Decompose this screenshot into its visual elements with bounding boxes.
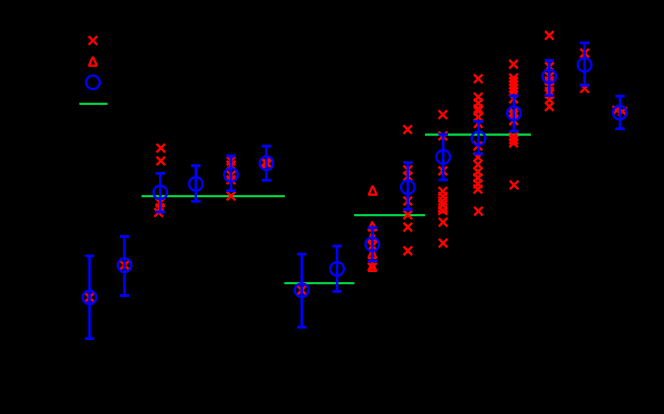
group mean line G1 <box>142 195 285 197</box>
cluster 13: blue mean circle <box>507 106 521 120</box>
cluster 3: blue error bar with caps <box>159 173 162 212</box>
cluster 7: red x data points <box>297 286 306 295</box>
cluster 1: blue error bar with caps <box>88 256 91 339</box>
cluster 1: blue mean circle <box>83 291 97 305</box>
cluster 10: blue mean circle <box>401 180 415 194</box>
cluster 5: blue mean circle <box>224 168 238 182</box>
cluster 13: blue error bar with caps <box>513 96 516 131</box>
cluster 5: red x data points <box>227 157 236 201</box>
cluster 11: blue mean circle <box>436 150 450 164</box>
cluster 16: blue error bar with caps <box>619 96 622 129</box>
cluster 13: red x data points <box>509 60 518 189</box>
cluster 3: blue mean circle <box>154 186 168 200</box>
cluster 5: blue error bar with caps <box>230 156 233 191</box>
cluster 7: blue mean circle <box>295 283 309 297</box>
cluster 1: red x data points <box>85 293 94 302</box>
legend green line <box>79 103 107 105</box>
cluster 11: red x data points <box>439 110 448 247</box>
cluster 6: blue error bar with caps <box>265 146 268 180</box>
cluster 10: blue error bar with caps <box>407 163 410 210</box>
cluster 11: blue error bar with caps <box>442 134 445 180</box>
legend marker: red triangle <box>89 57 97 66</box>
cluster 9: red x data points <box>368 242 377 272</box>
cluster 12: blue mean circle <box>472 132 486 146</box>
cluster 9: blue mean circle <box>366 238 380 252</box>
cluster 14: blue mean circle <box>543 70 557 84</box>
cluster 16: blue mean circle <box>613 106 627 120</box>
cluster 4: blue mean circle <box>189 177 203 191</box>
cluster 12: blue error bar with caps <box>477 122 480 154</box>
cluster 15: blue error bar with caps <box>583 43 586 85</box>
group mean line G3 <box>354 214 425 216</box>
cluster 10: red x data points <box>403 125 412 255</box>
cluster 14: blue error bar with caps <box>548 61 551 96</box>
legend marker: red x (data points) <box>89 36 98 45</box>
cluster 14: red x data points <box>545 31 554 111</box>
cluster 8: blue error bar with caps <box>336 246 339 291</box>
cluster 15: blue mean circle <box>578 58 592 72</box>
cluster 6: blue mean circle <box>260 156 274 170</box>
cluster 9: red triangle data points <box>368 186 376 271</box>
cluster 3: red x data points <box>154 144 165 217</box>
cluster 8: blue mean circle <box>330 262 344 276</box>
cluster 4: blue error bar with caps <box>195 166 198 202</box>
cluster 9: blue error bar with caps <box>371 228 374 261</box>
cluster 12: red x data points <box>474 74 483 215</box>
cluster 2: red x data points <box>120 261 129 270</box>
cluster 2: blue error bar with caps <box>123 237 126 296</box>
cluster 16: red x data points <box>613 106 627 116</box>
group mean line G2 <box>284 282 354 284</box>
group mean line G4 <box>425 134 531 136</box>
legend marker: blue circle (mean) <box>86 76 100 90</box>
cluster 6: red x data points <box>261 158 272 168</box>
cluster 15: red x data points <box>580 49 589 93</box>
cluster 7: blue error bar with caps <box>300 254 303 327</box>
cluster 11: red triangle data points <box>439 203 447 212</box>
cluster 2: blue mean circle <box>118 258 132 272</box>
